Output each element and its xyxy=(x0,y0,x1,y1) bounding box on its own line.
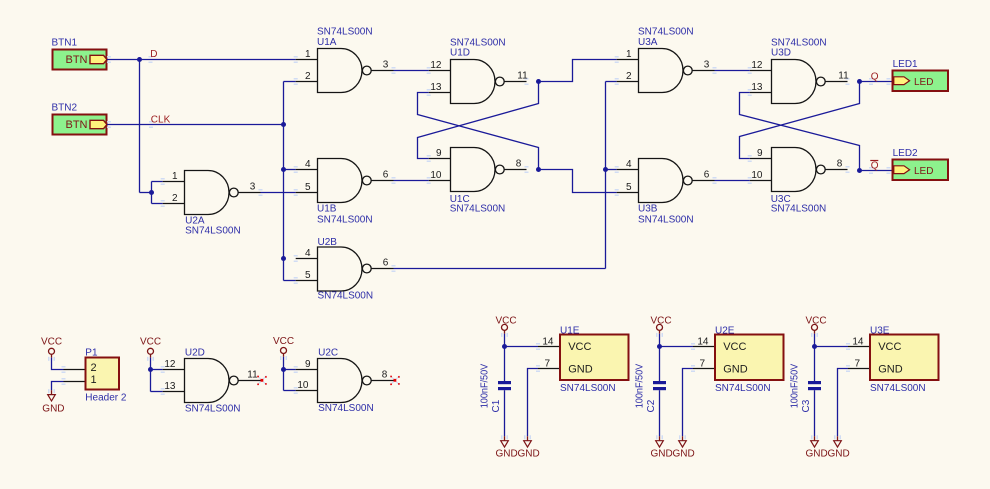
svg-text:1: 1 xyxy=(91,374,97,386)
svg-text:U3A: U3A xyxy=(638,37,658,48)
svg-text:U2D: U2D xyxy=(185,347,205,358)
svg-text:SN74LS00N: SN74LS00N xyxy=(715,383,771,394)
svg-text:SN74LS00N: SN74LS00N xyxy=(638,214,694,225)
svg-text:100nF/50V: 100nF/50V xyxy=(635,363,646,408)
svg-text:3: 3 xyxy=(250,182,256,193)
svg-text:12: 12 xyxy=(751,60,763,71)
svg-text:8: 8 xyxy=(382,370,388,381)
svg-text:GND: GND xyxy=(518,448,540,459)
svg-text:U3B: U3B xyxy=(638,204,658,215)
svg-text:7: 7 xyxy=(854,359,860,370)
svg-text:GND: GND xyxy=(723,363,748,375)
svg-text:SN74LS00N: SN74LS00N xyxy=(318,291,374,302)
svg-text:8: 8 xyxy=(837,159,843,170)
svg-text:5: 5 xyxy=(305,270,311,281)
svg-text:LED2: LED2 xyxy=(893,148,918,159)
svg-text:GND: GND xyxy=(878,363,903,375)
svg-text:5: 5 xyxy=(626,182,632,193)
svg-text:6: 6 xyxy=(704,170,710,181)
svg-text:VCC: VCC xyxy=(140,337,161,348)
svg-text:2: 2 xyxy=(305,71,311,82)
svg-text:4: 4 xyxy=(626,159,632,170)
svg-text:SN74LS00N: SN74LS00N xyxy=(771,204,827,215)
svg-text:Q: Q xyxy=(871,72,879,83)
svg-text:3: 3 xyxy=(704,60,710,71)
svg-text:SN74LS00N: SN74LS00N xyxy=(318,403,374,414)
svg-text:13: 13 xyxy=(430,82,442,93)
svg-text:4: 4 xyxy=(305,159,311,170)
svg-text:7: 7 xyxy=(699,359,705,370)
svg-text:8: 8 xyxy=(516,159,522,170)
svg-text:14: 14 xyxy=(852,337,864,348)
svg-text:4: 4 xyxy=(305,248,311,259)
svg-text:VCC: VCC xyxy=(878,341,901,353)
svg-text:2: 2 xyxy=(91,362,97,374)
svg-text:U1E: U1E xyxy=(560,325,580,336)
svg-text:SN74LS00N: SN74LS00N xyxy=(560,383,616,394)
svg-text:VCC: VCC xyxy=(723,341,746,353)
svg-text:VCC: VCC xyxy=(41,337,62,348)
svg-text:1: 1 xyxy=(305,49,311,60)
svg-text:100nF/50V: 100nF/50V xyxy=(790,363,801,408)
svg-text:GND: GND xyxy=(806,448,828,459)
svg-text:1: 1 xyxy=(172,171,178,182)
svg-text:12: 12 xyxy=(430,60,442,71)
svg-text:VCC: VCC xyxy=(273,336,294,347)
svg-text:U2B: U2B xyxy=(318,237,338,248)
svg-text:LED: LED xyxy=(914,166,933,177)
svg-text:BTN: BTN xyxy=(66,119,88,131)
svg-text:VCC: VCC xyxy=(568,341,591,353)
svg-text:D: D xyxy=(150,49,157,60)
svg-text:12: 12 xyxy=(164,359,176,370)
svg-text:GND: GND xyxy=(651,448,673,459)
svg-text:U2E: U2E xyxy=(715,325,735,336)
svg-text:BTN2: BTN2 xyxy=(52,103,78,114)
svg-text:9: 9 xyxy=(436,148,442,159)
svg-text:SN74LS00N: SN74LS00N xyxy=(317,214,373,225)
svg-text:9: 9 xyxy=(305,359,311,370)
svg-text:GND: GND xyxy=(673,448,695,459)
svg-text:SN74LS00N: SN74LS00N xyxy=(185,225,241,236)
svg-text:9: 9 xyxy=(757,148,763,159)
svg-text:U3E: U3E xyxy=(870,325,890,336)
svg-text:100nF/50V: 100nF/50V xyxy=(480,363,491,408)
svg-text:10: 10 xyxy=(430,170,442,181)
svg-text:C3: C3 xyxy=(801,399,812,412)
svg-text:6: 6 xyxy=(383,170,389,181)
svg-text:C2: C2 xyxy=(646,399,657,412)
svg-text:U1D: U1D xyxy=(450,47,470,58)
svg-text:14: 14 xyxy=(542,337,554,348)
svg-text:2: 2 xyxy=(172,193,178,204)
svg-text:C1: C1 xyxy=(491,399,502,412)
svg-text:U2C: U2C xyxy=(318,347,338,358)
svg-text:P1: P1 xyxy=(85,347,98,358)
svg-text:SN74LS00N: SN74LS00N xyxy=(870,383,926,394)
svg-text:10: 10 xyxy=(297,380,309,391)
svg-text:U1B: U1B xyxy=(317,204,337,215)
svg-text:2: 2 xyxy=(626,71,632,82)
svg-text:10: 10 xyxy=(751,170,763,181)
svg-text:14: 14 xyxy=(697,337,709,348)
svg-text:11: 11 xyxy=(247,370,258,381)
svg-text:CLK: CLK xyxy=(151,115,171,126)
svg-text:1: 1 xyxy=(626,49,632,60)
svg-text:13: 13 xyxy=(164,381,176,392)
svg-text:SN74LS00N: SN74LS00N xyxy=(185,403,241,414)
svg-text:13: 13 xyxy=(751,82,763,93)
svg-text:Header 2: Header 2 xyxy=(85,392,127,403)
svg-text:GND: GND xyxy=(42,403,64,414)
svg-text:11: 11 xyxy=(517,71,528,82)
svg-text:11: 11 xyxy=(838,71,849,82)
svg-text:U1A: U1A xyxy=(317,37,337,48)
svg-text:U3D: U3D xyxy=(771,47,791,58)
svg-text:SN74LS00N: SN74LS00N xyxy=(450,204,506,215)
svg-text:3: 3 xyxy=(383,60,389,71)
svg-text:Q: Q xyxy=(871,161,879,172)
svg-text:5: 5 xyxy=(305,182,311,193)
svg-text:6: 6 xyxy=(383,258,389,269)
svg-text:LED1: LED1 xyxy=(893,59,918,70)
svg-text:BTN1: BTN1 xyxy=(52,38,78,49)
svg-text:LED: LED xyxy=(914,77,933,88)
svg-text:BTN: BTN xyxy=(66,54,88,66)
svg-text:GND: GND xyxy=(568,363,593,375)
svg-text:GND: GND xyxy=(496,448,518,459)
svg-text:7: 7 xyxy=(544,359,550,370)
svg-text:GND: GND xyxy=(828,448,850,459)
